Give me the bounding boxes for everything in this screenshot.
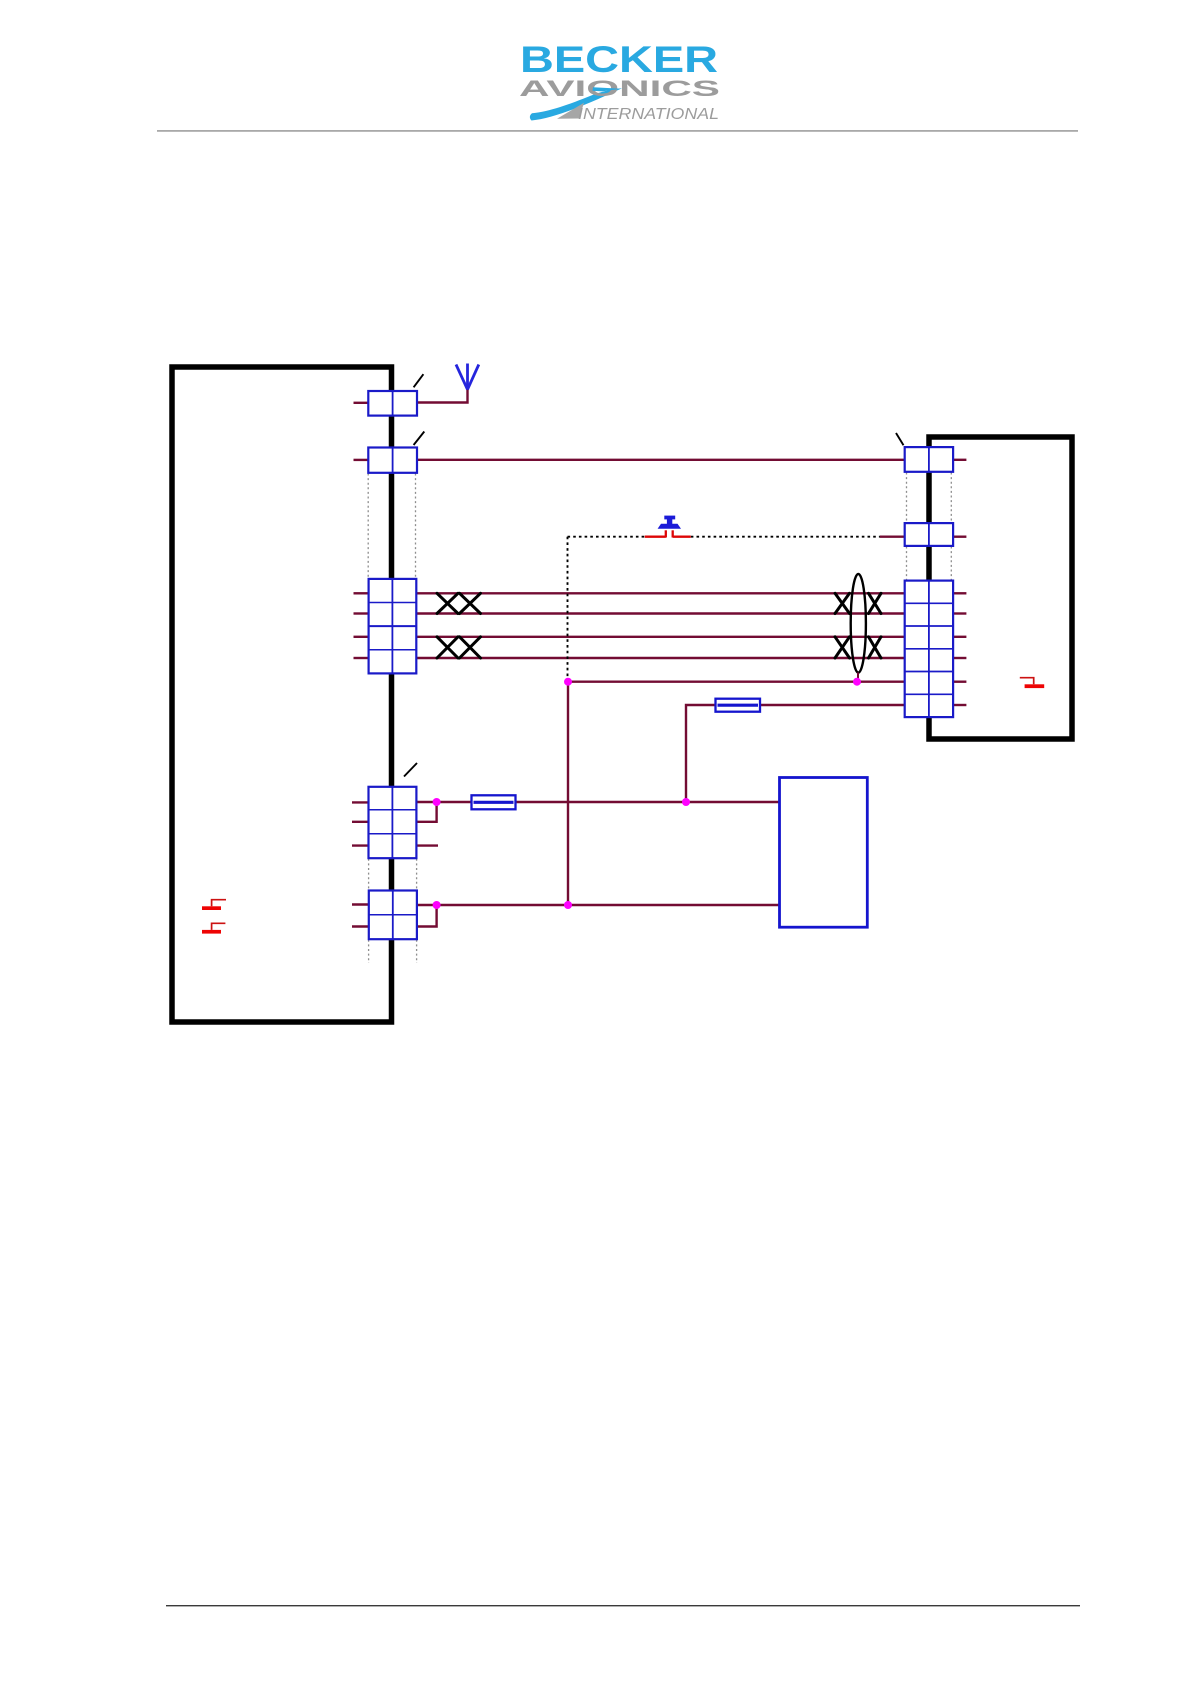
- wire shield ground bus: [568, 681, 905, 683]
- wire J2 stub left: [880, 536, 905, 538]
- wire J3 row1-4 stubs inside: [953, 593, 966, 658]
- wire pair1 line A: [417, 592, 905, 594]
- wire P4 row1 feed: [417, 801, 780, 803]
- dashed link P2-P3: [368, 474, 415, 579]
- wire P2 stub inside: [354, 459, 370, 461]
- connector J2: [905, 523, 953, 546]
- dashed link below P5: [369, 940, 417, 963]
- connector P3: [369, 579, 417, 674]
- logo arrow in O: [593, 87, 622, 91]
- pushbutton S1 contacts: [645, 530, 691, 537]
- connector P2: [368, 448, 417, 473]
- connector P4: [369, 787, 417, 858]
- power symbol left lower: [202, 923, 225, 933]
- junction dot bus bottom: [564, 901, 572, 909]
- dotted PTT line horizontal right: [691, 536, 880, 538]
- wire J3 row6 stub inside: [953, 704, 966, 706]
- wire pair2 line B: [417, 657, 905, 659]
- junction dot shield: [853, 678, 861, 686]
- antenna A1: [456, 364, 479, 390]
- wire P5 row1 to module: [417, 904, 780, 906]
- logo Becker Avionics wordmark: [519, 38, 720, 123]
- slash mark P4: [404, 763, 417, 777]
- wire P5 row2 hook: [417, 905, 437, 927]
- svg-text:BECKER: BECKER: [520, 38, 718, 80]
- wire pair1 line B: [417, 612, 905, 614]
- junction dot F2 branch: [682, 798, 690, 806]
- wire shield drop: [857, 673, 859, 682]
- twist symbol pair1 left: [437, 593, 481, 613]
- dashed link J1-J2: [907, 473, 952, 523]
- unit box left (transceiver): [172, 367, 392, 1022]
- fuse F1: [472, 795, 516, 809]
- junction dot P4: [433, 798, 441, 806]
- junction dot bus top: [564, 678, 572, 686]
- twist symbol pair2 right: [835, 637, 881, 658]
- wire P4 row3 stub: [417, 844, 438, 846]
- wire J2 stub inside: [953, 536, 966, 538]
- wire P5 stubs inside: [352, 905, 369, 927]
- wire P2 to J1: [417, 459, 905, 461]
- wire P3 stubs inside: [354, 593, 370, 658]
- connector J3: [905, 581, 953, 718]
- slash mark J1: [896, 433, 904, 445]
- wire fuse2 branch: [686, 705, 905, 802]
- wire antenna stub inside: [354, 402, 370, 404]
- dashed link J2-J3: [907, 547, 952, 581]
- wire P4 row2 hook: [417, 802, 437, 822]
- power symbol right box: [1020, 678, 1044, 688]
- wire J3 row5 stub inside: [953, 681, 966, 683]
- slash mark P2: [414, 432, 425, 446]
- unit box right (control unit): [929, 437, 1072, 739]
- twist symbol pair1 right: [835, 593, 881, 613]
- connector P1: [368, 391, 417, 416]
- wire pair2 line A: [417, 636, 905, 638]
- svg-text:AVIONICS: AVIONICS: [519, 76, 720, 101]
- footer rule: [166, 1605, 1080, 1606]
- junction dot P5: [433, 901, 441, 909]
- svg-text:INTERNATIONAL: INTERNATIONAL: [578, 106, 719, 123]
- logo swoosh: [530, 88, 622, 120]
- power symbol left upper: [202, 900, 226, 910]
- dotted PTT line vertical: [567, 537, 569, 678]
- shield ellipse: [851, 574, 866, 673]
- wire J1 stub inside: [953, 459, 966, 461]
- dotted PTT line horizontal left: [568, 536, 645, 538]
- pushbutton S1 actuator: [658, 516, 681, 529]
- wire antenna feed: [417, 389, 468, 403]
- wire P4 stubs inside: [352, 802, 369, 845]
- module box (blue): [780, 778, 868, 928]
- connector P5: [369, 891, 417, 940]
- twist symbol pair2 left: [437, 637, 481, 658]
- dashed link P4-P5: [369, 859, 417, 890]
- header rule: [157, 130, 1078, 132]
- connector J1: [905, 447, 953, 472]
- fuse F2: [716, 699, 761, 712]
- wire vertical bus: [567, 682, 569, 905]
- slash mark P1: [414, 374, 424, 387]
